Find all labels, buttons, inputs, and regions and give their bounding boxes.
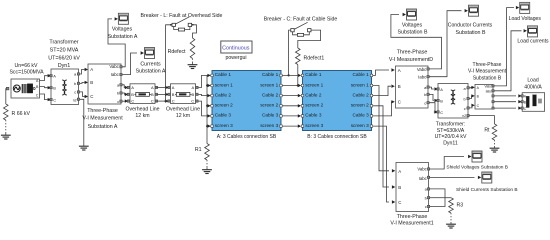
svg-text:c: c [464,106,466,111]
svg-text:Cable 1: Cable 1 [353,72,370,77]
svg-text:Breaker - L: Fault at Overhead: Breaker - L: Fault at Overhead Side [141,13,223,19]
svg-text:screen 3: screen 3 [260,123,278,128]
svg-text:V-I Measurement: V-I Measurement [468,69,507,75]
svg-text:Substation A: Substation A [136,69,166,75]
svg-text:Conductor Currents: Conductor Currents [448,23,493,29]
svg-text:Load: Load [527,78,538,84]
svg-text:screen 2: screen 2 [305,103,323,108]
svg-text:V-I Measurement1: V-I Measurement1 [390,220,433,226]
svg-text:Three-Phase: Three-Phase [397,49,428,55]
svg-text:B: B [90,80,93,85]
svg-text:Three-Phase: Three-Phase [87,108,118,114]
svg-text:Continuous: Continuous [222,45,250,51]
svg-text:c: c [117,99,119,104]
svg-text:A: A [192,85,195,90]
svg-text:Rt: Rt [484,128,490,134]
svg-text:Cable 2: Cable 2 [353,92,370,97]
svg-text:R 66 kV: R 66 kV [12,111,31,117]
svg-text:Voltages: Voltages [402,22,423,28]
svg-text:Cable 3: Cable 3 [262,113,279,118]
svg-text:Cable 3: Cable 3 [353,113,370,118]
svg-text:A: A [151,85,154,90]
svg-text:C: C [398,200,401,205]
svg-text:C: C [440,110,443,115]
svg-text:Cable 2: Cable 2 [215,92,232,97]
svg-text:A: A [90,67,93,72]
svg-text:Substation A: Substation A [108,34,138,40]
svg-text:B: B [398,84,401,89]
svg-text:powergui: powergui [225,55,246,61]
svg-text:screen 2: screen 2 [260,103,278,108]
svg-text:Voltages: Voltages [112,26,133,32]
svg-text:A: A [53,73,56,78]
svg-text:Cable 3: Cable 3 [215,113,232,118]
svg-text:Rdefect1: Rdefect1 [304,56,325,62]
svg-text:B: B [53,85,56,90]
svg-text:Currents: Currents [140,61,161,67]
svg-text:Iabc: Iabc [418,75,427,80]
svg-text:A: 3 Cables connection SB: A: 3 Cables connection SB [217,134,277,140]
svg-text:Cable 1: Cable 1 [215,72,232,77]
svg-text:Vabc: Vabc [417,167,427,172]
svg-text:Iabc: Iabc [486,89,493,93]
svg-text:Overhead Line: Overhead Line [166,106,200,112]
svg-text:C: C [53,97,56,102]
svg-text:B: 3 Cables connection SB: B: 3 Cables connection SB [307,134,367,140]
svg-text:C: C [36,93,39,97]
svg-text:B: B [131,92,134,97]
svg-text:Three-Phase: Three-Phase [473,62,502,68]
svg-text:B: B [192,92,195,97]
svg-text:c: c [74,90,76,95]
svg-text:n2: n2 [462,114,466,118]
svg-text:C: C [131,99,134,104]
svg-text:Cable 1: Cable 1 [305,72,322,77]
svg-text:B: B [151,92,154,97]
svg-text:A: A [131,85,134,90]
svg-text:B: B [398,185,401,190]
svg-text:Shield Voltages Substation B: Shield Voltages Substation B [446,164,508,170]
svg-text:Rdefect: Rdefect [168,49,186,55]
svg-text:Scc=1500MVA: Scc=1500MVA [9,69,44,75]
svg-text:A: A [172,85,175,90]
svg-text:screen 3: screen 3 [305,123,323,128]
svg-text:B: B [172,92,175,97]
svg-text:R1: R1 [195,147,202,153]
svg-text:Cable 2: Cable 2 [262,92,279,97]
svg-text:Shield Currents Substation B: Shield Currents Substation B [456,187,518,193]
svg-text:screen 1: screen 1 [260,82,278,87]
svg-text:Iabc: Iabc [111,72,120,77]
svg-text:Iabc: Iabc [419,176,428,181]
svg-text:Three-Phase: Three-Phase [397,214,428,220]
svg-text:V-I MeasurementD: V-I MeasurementD [389,57,433,63]
svg-text:Vabc: Vabc [417,67,427,72]
svg-text:12 km: 12 km [135,113,149,119]
svg-text:C: C [151,99,154,104]
svg-text:V-I Measurement: V-I Measurement [82,116,123,122]
svg-text:A: A [398,169,401,174]
svg-text:n2: n2 [73,99,77,103]
svg-text:12 km: 12 km [176,113,190,119]
svg-text:Un=66 kV: Un=66 kV [15,63,38,69]
svg-text:C: C [398,100,401,105]
svg-text:Dyn11: Dyn11 [443,141,458,147]
svg-text:screen 1: screen 1 [305,82,323,87]
svg-text:Substation B: Substation B [473,75,502,81]
svg-text:400kVA: 400kVA [524,84,542,90]
svg-text:Vabc: Vabc [485,84,493,88]
svg-text:screen 3: screen 3 [215,123,233,128]
svg-text:A: A [440,87,443,92]
svg-text:B: B [440,99,443,104]
svg-text:Substation B: Substation B [397,30,428,36]
svg-text:Overhead Line: Overhead Line [125,106,159,112]
svg-text:C: C [90,94,93,99]
svg-text:Cable 2: Cable 2 [305,92,322,97]
svg-text:screen 1: screen 1 [215,82,233,87]
svg-text:C: C [191,99,194,104]
svg-text:screen 2: screen 2 [351,103,369,108]
svg-text:c: c [425,204,427,209]
svg-text:UT=66/20 kV: UT=66/20 kV [48,55,80,61]
svg-text:ST=20 MVA: ST=20 MVA [50,48,79,54]
svg-text:Substation B: Substation B [455,30,486,36]
svg-text:UT=20/0.4 kV: UT=20/0.4 kV [435,134,467,140]
svg-text:Dyn1: Dyn1 [58,63,71,69]
svg-text:Cable 3: Cable 3 [305,113,322,118]
svg-text:ST=630kVA: ST=630kVA [437,128,465,134]
svg-text:screen 1: screen 1 [351,82,369,87]
svg-text:Substation A: Substation A [88,124,118,130]
svg-text:screen 3: screen 3 [351,123,369,128]
svg-text:Breaker - C: Fault at Cable Si: Breaker - C: Fault at Cable Side [264,17,338,23]
svg-text:b: b [464,97,466,102]
svg-text:Transformer:: Transformer: [436,121,466,127]
svg-text:C: C [172,99,175,104]
svg-text:Load Voltages: Load Voltages [509,16,542,22]
svg-text:A: A [398,68,401,73]
svg-text:Transformer: Transformer [49,40,78,46]
svg-text:R3: R3 [457,202,464,208]
svg-text:Vabc: Vabc [109,64,119,69]
svg-text:screen 2: screen 2 [215,103,233,108]
svg-text:b: b [74,81,76,86]
svg-text:Cable 1: Cable 1 [262,72,279,77]
svg-text:c: c [424,100,426,105]
svg-text:Load currents: Load currents [517,39,549,45]
